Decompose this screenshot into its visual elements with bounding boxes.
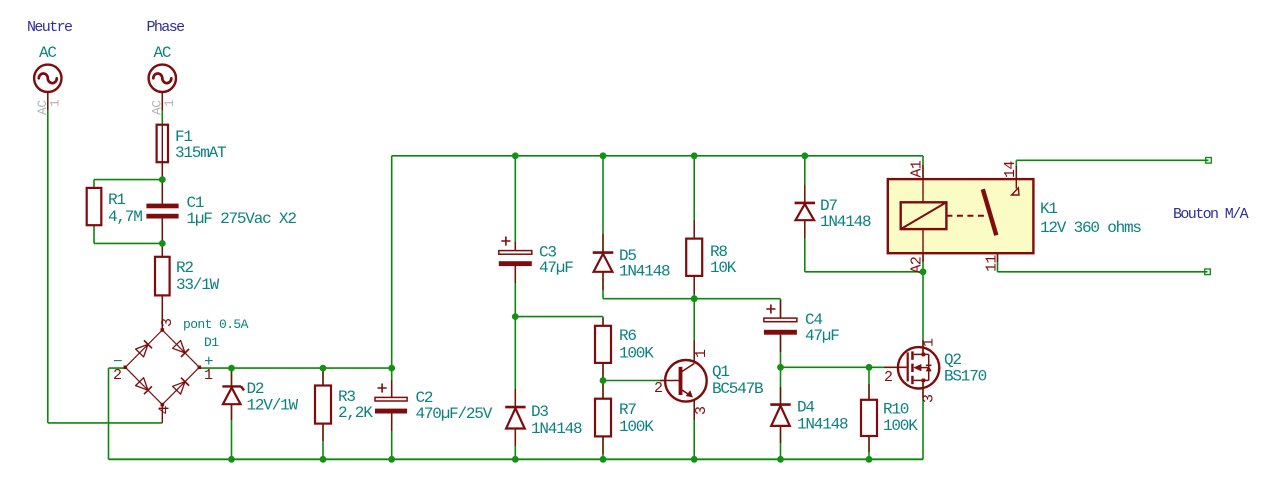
diode D3 xyxy=(505,406,525,409)
svg-text:4: 4 xyxy=(157,406,174,415)
wire relay A1 drop xyxy=(922,156,924,203)
wire R3 branch xyxy=(322,368,324,385)
svg-text:R6: R6 xyxy=(619,327,636,345)
wire C2 column to top rail xyxy=(391,156,393,368)
svg-text:10K: 10K xyxy=(710,259,737,277)
svg-text:3: 3 xyxy=(693,406,710,415)
pin stubs dark red xyxy=(47,92,49,110)
svg-text:R2: R2 xyxy=(176,259,193,277)
bridge D1 pin end dots xyxy=(161,328,165,332)
svg-text:12V 360 ohms: 12V 360 ohms xyxy=(1040,219,1141,237)
wire bridge plus rail xyxy=(200,367,392,369)
svg-text:K1: K1 xyxy=(1040,200,1057,218)
resistor R8 xyxy=(686,239,702,276)
svg-text:2,2K: 2,2K xyxy=(338,404,373,422)
svg-text:33/1W: 33/1W xyxy=(176,276,220,294)
wire C3 node to R6 xyxy=(515,316,603,318)
wire Neutre vertical xyxy=(47,92,49,423)
AC source Neutre xyxy=(34,65,61,92)
svg-text:Neutre: Neutre xyxy=(27,19,73,36)
svg-text:Phase: Phase xyxy=(147,19,186,36)
relay K1 body xyxy=(888,179,1034,253)
wire Phase source to fuse xyxy=(161,92,163,125)
wire D5 to R8 node xyxy=(603,298,694,300)
svg-text:100K: 100K xyxy=(883,417,918,435)
bridge rectifier D1 xyxy=(125,330,199,405)
wire top supply rail xyxy=(392,155,923,157)
diode D7 xyxy=(795,202,815,205)
svg-text:11: 11 xyxy=(984,255,1001,272)
terminal square pin14 xyxy=(1206,158,1212,164)
svg-text:3: 3 xyxy=(921,394,938,403)
wire D3 branch xyxy=(514,317,516,407)
wire C3 top xyxy=(514,156,516,251)
svg-text:R7: R7 xyxy=(619,401,636,419)
resistor R6 xyxy=(595,326,611,363)
svg-text:AC: AC xyxy=(154,44,171,62)
wire R1 top branch xyxy=(94,179,162,181)
wire D7 to relay A2 node xyxy=(805,271,923,273)
wire D5 top xyxy=(602,156,604,253)
relay K1 contact pin14 xyxy=(1015,179,1017,188)
wire Q1 collector xyxy=(693,299,695,362)
transistor Q1 BC547B xyxy=(665,360,707,402)
wire node to C4 top xyxy=(694,298,780,300)
svg-text:Q2: Q2 xyxy=(944,351,961,369)
diode D4 xyxy=(770,403,790,406)
wire R7 bottom xyxy=(602,436,604,459)
svg-text:1: 1 xyxy=(162,99,177,107)
wire D2 branch xyxy=(231,368,233,386)
capacitor C2 plus sign xyxy=(378,384,386,392)
fuse F1 xyxy=(157,125,168,163)
capacitor C2 polarized xyxy=(375,397,407,401)
wire D7 top xyxy=(804,156,806,203)
svg-text:Q1: Q1 xyxy=(712,363,729,381)
zener diode D2 xyxy=(222,385,241,387)
transistor Q2 BS170 mosfet xyxy=(898,347,939,388)
relay K1 coil line inside xyxy=(922,179,924,202)
svg-text:1: 1 xyxy=(693,349,710,358)
wire Q2 source to bus xyxy=(922,379,924,460)
wire C3 bottom to node xyxy=(514,265,516,317)
ground bus bottom xyxy=(109,458,924,460)
wire R6 R7 node to Q1 base xyxy=(603,380,665,382)
resistor R2 xyxy=(155,257,170,296)
svg-text:1: 1 xyxy=(48,99,63,107)
svg-text:315mAT: 315mAT xyxy=(175,144,226,162)
svg-text:100K: 100K xyxy=(619,345,654,363)
svg-text:47µF: 47µF xyxy=(805,327,839,345)
svg-text:Bouton M/A: Bouton M/A xyxy=(1173,206,1249,223)
svg-text:1: 1 xyxy=(921,338,938,347)
relay K1 coil xyxy=(901,202,947,229)
svg-text:1N4148: 1N4148 xyxy=(531,420,582,438)
svg-text:D3: D3 xyxy=(531,403,548,421)
svg-text:A1: A1 xyxy=(909,160,926,177)
wire R10 branch xyxy=(868,367,870,400)
svg-text:BC547B: BC547B xyxy=(712,380,763,398)
wire Neutre to bridge AC- bottom xyxy=(48,422,163,424)
resistor R10 xyxy=(861,400,877,436)
wire D5 anode down xyxy=(602,272,604,299)
svg-text:1N4148: 1N4148 xyxy=(820,213,871,231)
wire D4 branch xyxy=(780,367,782,404)
capacitor C3 plus sign xyxy=(502,237,510,245)
wire Q1 emitter to bus xyxy=(693,399,695,459)
capacitor C1 xyxy=(146,204,178,209)
terminal square pin11 xyxy=(1205,269,1211,275)
svg-text:470µF/25V: 470µF/25V xyxy=(416,405,493,423)
wire Phase fuse to bridge top xyxy=(161,162,163,203)
svg-text:AC: AC xyxy=(39,44,56,62)
diode D5 xyxy=(593,251,614,254)
svg-text:R1: R1 xyxy=(108,191,125,209)
svg-text:3: 3 xyxy=(159,318,176,327)
AC source Phase xyxy=(149,65,176,92)
svg-text:D1: D1 xyxy=(204,335,219,350)
svg-text:+: + xyxy=(204,353,213,371)
wire R8 bottom to node xyxy=(693,276,695,299)
relay K1 switch blade xyxy=(983,189,997,235)
wire C2 branch xyxy=(391,368,393,397)
svg-text:BS170: BS170 xyxy=(944,368,987,386)
wire bridge minus to ground bus xyxy=(109,367,126,369)
resistor R7 xyxy=(595,399,611,437)
svg-text:1N4148: 1N4148 xyxy=(797,416,848,434)
svg-text:1µF 275Vac X2: 1µF 275Vac X2 xyxy=(187,210,297,228)
wire D7 anode down xyxy=(804,220,806,272)
svg-text:pont 0.5A: pont 0.5A xyxy=(183,317,249,332)
capacitor C3 polarized xyxy=(499,251,532,255)
junction dots xyxy=(159,176,166,183)
resistor R1 xyxy=(87,188,102,225)
svg-text:12V/1W: 12V/1W xyxy=(247,397,299,415)
svg-text:100K: 100K xyxy=(619,418,654,436)
svg-text:R10: R10 xyxy=(883,401,909,419)
wire R6 to R7 xyxy=(602,363,604,399)
svg-text:2: 2 xyxy=(654,380,662,397)
svg-text:14: 14 xyxy=(1002,161,1019,178)
svg-text:−: − xyxy=(113,353,122,371)
wire R8 top xyxy=(693,156,695,239)
capacitor C4 plus sign xyxy=(767,305,775,313)
svg-text:47µF: 47µF xyxy=(539,259,573,277)
wire relay pin11 to button terminal xyxy=(997,235,999,272)
svg-text:D2: D2 xyxy=(247,380,264,398)
svg-text:D4: D4 xyxy=(797,399,814,417)
resistor R3 xyxy=(315,386,331,424)
svg-text:1N4148: 1N4148 xyxy=(619,263,670,281)
svg-text:4,7M: 4,7M xyxy=(108,208,142,226)
wire R1 bottom branch xyxy=(93,225,95,243)
wire C4 bottom to gate node xyxy=(780,335,782,368)
wire relay pin14 to button terminal xyxy=(1016,159,1208,161)
wire gate row xyxy=(781,366,899,368)
relay K1 linkage dashed xyxy=(946,215,988,217)
wire relay A2 to Q2 drain xyxy=(922,229,924,356)
capacitor C4 polarized xyxy=(764,318,797,322)
svg-text:2: 2 xyxy=(884,369,892,386)
